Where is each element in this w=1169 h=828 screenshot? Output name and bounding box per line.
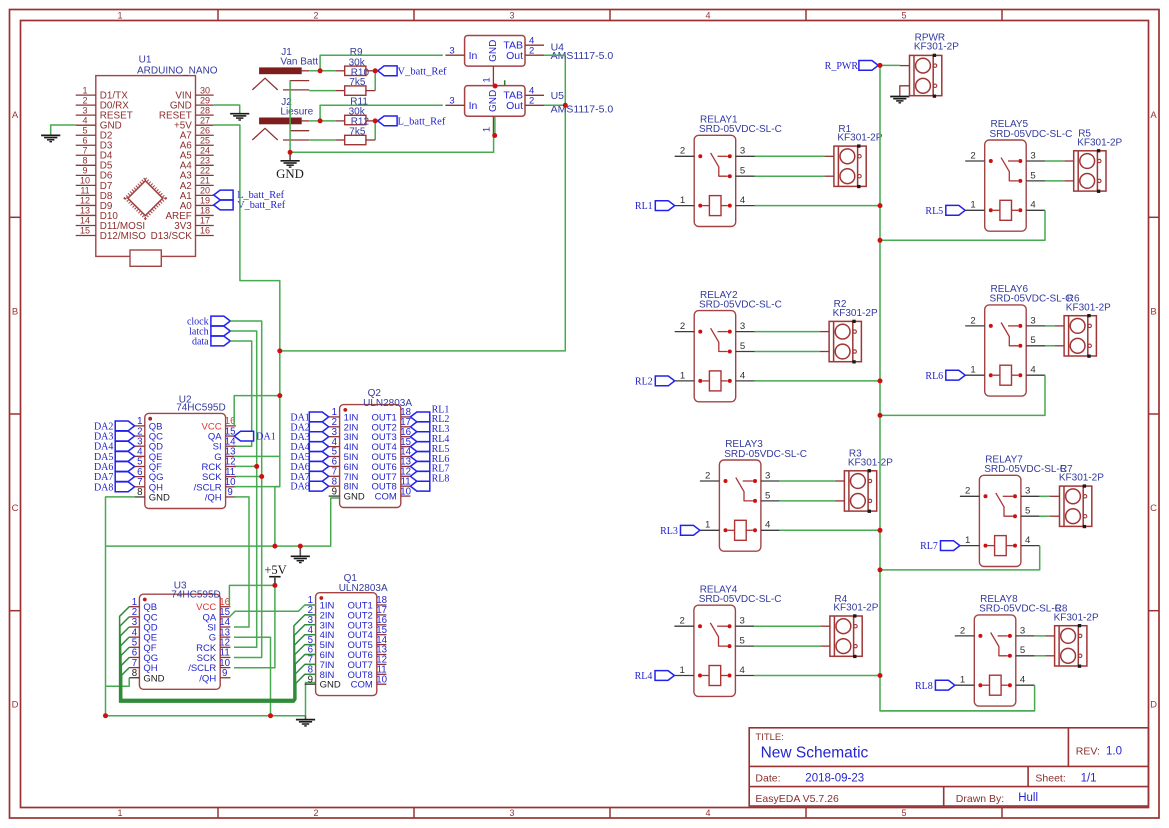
net flag RL8 at relay coil xyxy=(935,680,954,690)
wire RELAY1 pin5 to R1 xyxy=(755,175,825,177)
wire mid GND bus xyxy=(106,498,340,546)
net flag RL5 at Q2 OUT5 xyxy=(410,452,429,462)
svg-text:2: 2 xyxy=(680,616,685,627)
svg-text:2: 2 xyxy=(313,10,318,20)
svg-text:3: 3 xyxy=(765,470,770,481)
wire RELAY2 pin4 to bus xyxy=(755,380,881,382)
wire RELAY3 pin5 to R3 xyxy=(780,500,835,502)
svg-text:KF301-2P: KF301-2P xyxy=(914,42,959,53)
svg-text:B: B xyxy=(12,307,18,318)
net flag RL1 at relay coil xyxy=(655,201,674,211)
connector R1 KF301-2P xyxy=(824,144,866,188)
net flag DA8 at Q2 pin 8 xyxy=(309,481,328,491)
svg-text:1: 1 xyxy=(680,195,685,206)
wire data to U2 SI xyxy=(230,341,251,446)
svg-text:6: 6 xyxy=(82,135,87,145)
svg-text:4: 4 xyxy=(705,808,710,818)
connector R3 KF301-2P xyxy=(835,469,877,513)
connector R7 KF301-2P xyxy=(1050,484,1092,528)
svg-text:9: 9 xyxy=(82,166,87,176)
net flag RL4 at Q2 OUT4 xyxy=(410,442,429,452)
svg-text:SRD-05VDC-SL-C: SRD-05VDC-SL-C xyxy=(699,594,782,605)
wire RELAY4 pin4 to bus xyxy=(754,675,880,677)
svg-text:KF301-2P: KF301-2P xyxy=(833,603,878,614)
wire U3 QA to Q1 1IN xyxy=(229,605,315,617)
net flag DA6 at U2 pin 5 xyxy=(115,462,134,472)
svg-text:2018-09-23: 2018-09-23 xyxy=(805,773,864,785)
svg-text:1: 1 xyxy=(960,675,965,686)
svg-text:3: 3 xyxy=(82,105,87,115)
net flag DA7 at Q2 pin 7 xyxy=(309,471,328,481)
svg-text:2: 2 xyxy=(965,486,970,497)
resistor R12 7k5 xyxy=(345,135,366,144)
svg-text:16: 16 xyxy=(200,226,210,236)
wire V_batt node xyxy=(366,70,375,72)
svg-text:4: 4 xyxy=(82,115,87,125)
svg-text:3: 3 xyxy=(449,96,454,107)
connector R2 KF301-2P xyxy=(820,320,862,364)
svg-text:R9: R9 xyxy=(350,47,363,58)
relay RELAY3 SRD-05VDC-SL-C xyxy=(700,460,780,551)
net flag RL5 at relay coil xyxy=(946,205,965,215)
svg-text:New Schematic: New Schematic xyxy=(761,745,869,762)
svg-text:13: 13 xyxy=(80,206,90,216)
wire +5V branch to regulators xyxy=(280,55,566,351)
relay RELAY1 SRD-05VDC-SL-C xyxy=(675,135,755,226)
svg-text:23: 23 xyxy=(200,156,210,166)
svg-text:GND: GND xyxy=(276,167,304,181)
wire U3 QG to Q1 7IN xyxy=(121,657,315,699)
wire RELAY5 pin3 to R5 xyxy=(1045,160,1064,162)
net flag RL4 at relay coil xyxy=(655,671,674,681)
svg-text:4: 4 xyxy=(1020,675,1026,686)
svg-text:20: 20 xyxy=(200,186,210,196)
svg-text:15: 15 xyxy=(80,226,90,236)
svg-text:5: 5 xyxy=(765,490,770,501)
svg-text:GND: GND xyxy=(143,673,164,684)
svg-text:7k5: 7k5 xyxy=(349,126,366,137)
regulator U4 AMS1117-5.0 xyxy=(445,35,544,86)
svg-text:1: 1 xyxy=(965,535,970,546)
svg-text:5: 5 xyxy=(1020,645,1025,656)
svg-text:14: 14 xyxy=(80,216,90,226)
wire RELAY5 pin5 to R5 xyxy=(1045,180,1064,182)
svg-text:5: 5 xyxy=(1030,335,1035,346)
wire R10 to J1 minus xyxy=(335,90,344,92)
svg-text:/QH: /QH xyxy=(205,492,222,503)
svg-text:5: 5 xyxy=(1025,506,1030,517)
svg-text:2: 2 xyxy=(960,625,965,636)
svg-text:1/1: 1/1 xyxy=(1081,773,1097,785)
wire RELAY2 pin3 to R2 xyxy=(755,331,820,333)
wire U3 QH to Q1 8IN xyxy=(122,668,316,700)
wire RELAY2 pin5 to R2 xyxy=(755,351,820,353)
svg-text:In: In xyxy=(469,50,478,62)
svg-text:27: 27 xyxy=(200,115,210,125)
svg-text:8: 8 xyxy=(132,668,137,679)
title block xyxy=(749,728,1148,806)
resistor R11 30k xyxy=(345,115,366,124)
wire U2 /SCLR tie xyxy=(234,486,280,488)
svg-text:2: 2 xyxy=(680,321,685,332)
svg-text:C: C xyxy=(12,503,19,514)
wire RELAY5 pin4 to bus xyxy=(880,210,1045,240)
wire U3 QD to Q1 4IN xyxy=(120,627,315,701)
svg-text:4: 4 xyxy=(705,10,710,20)
svg-text:R_PWR: R_PWR xyxy=(825,61,859,72)
net flag data xyxy=(211,336,230,346)
svg-text:RL8: RL8 xyxy=(915,681,933,692)
svg-text:5: 5 xyxy=(740,341,745,352)
svg-text:2: 2 xyxy=(970,150,975,161)
wire U2 VCC riser xyxy=(234,396,280,426)
wire U3 GND to bus xyxy=(106,678,130,687)
svg-text:3: 3 xyxy=(740,146,745,157)
net flag DA2 at U2 pin 1 xyxy=(115,421,134,431)
wire U1 pin4 GND xyxy=(51,125,76,134)
svg-text:7: 7 xyxy=(82,145,87,155)
wire U5 Out to riser xyxy=(544,104,565,106)
svg-text:Date:: Date: xyxy=(755,773,780,785)
ground at U1 pin4 xyxy=(50,134,52,135)
svg-text:2: 2 xyxy=(529,45,534,56)
wire L_batt node xyxy=(366,120,375,122)
svg-text:1: 1 xyxy=(481,127,492,132)
relay RELAY8 SRD-05VDC-SL-C xyxy=(955,615,1035,706)
svg-text:3: 3 xyxy=(740,321,745,332)
net flag RL6 at relay coil xyxy=(946,370,965,380)
ground symbol mid bus xyxy=(299,546,301,556)
svg-text:3: 3 xyxy=(509,808,514,818)
svg-text:1.0: 1.0 xyxy=(1106,746,1122,758)
svg-text:2: 2 xyxy=(82,95,87,105)
svg-text:12: 12 xyxy=(80,196,90,206)
svg-text:9: 9 xyxy=(222,668,227,679)
svg-text:5: 5 xyxy=(740,166,745,177)
ic U1 ARDUINO_NANO xyxy=(76,55,218,267)
net flag DA5 at U2 pin 4 xyxy=(115,451,134,461)
svg-text:KF301-2P: KF301-2P xyxy=(837,133,882,144)
svg-text:B: B xyxy=(1150,307,1156,318)
svg-text:5: 5 xyxy=(740,636,745,647)
wire RELAY6 pin3 to R6 xyxy=(1045,325,1055,327)
wire RELAY7 pin3 to R7 xyxy=(1040,495,1050,497)
net flag RL7 at Q2 OUT7 xyxy=(410,471,429,481)
relay RELAY5 SRD-05VDC-SL-C xyxy=(965,140,1045,231)
svg-text:4: 4 xyxy=(1030,200,1036,211)
svg-text:2: 2 xyxy=(705,470,710,481)
connector R5 KF301-2P xyxy=(1064,149,1106,193)
wire RELAY8 pin5 to R8 xyxy=(1035,655,1046,657)
wire clock to U2 SCK and U3 SCK xyxy=(230,321,261,658)
net flag DA8 at U2 pin 7 xyxy=(115,482,134,492)
resistor R9 30k xyxy=(345,66,366,75)
svg-text:Liesure: Liesure xyxy=(280,107,313,118)
ic Q1 ULN2803A xyxy=(305,593,388,696)
svg-text:DA8: DA8 xyxy=(94,482,113,493)
net flag DA5 at Q2 pin 5 xyxy=(309,452,328,462)
svg-text:D12/MISO: D12/MISO xyxy=(100,231,146,242)
junction dots xyxy=(277,348,282,353)
svg-text:ULN2803A: ULN2803A xyxy=(363,398,412,409)
net flag V_batt_Ref at U1 A0 xyxy=(214,200,233,210)
svg-text:Drawn By:: Drawn By: xyxy=(956,793,1004,805)
relay RELAY7 SRD-05VDC-SL-C xyxy=(960,475,1040,566)
svg-text:2: 2 xyxy=(313,808,318,818)
svg-text:10: 10 xyxy=(376,674,387,685)
regulator U5 body xyxy=(445,86,544,136)
net flag latch xyxy=(211,326,230,336)
wire U2 /QH to U3 SI xyxy=(234,497,249,627)
svg-text:EasyEDA V5.7.26: EasyEDA V5.7.26 xyxy=(755,793,839,805)
wire J1 to R9 xyxy=(309,70,336,72)
svg-text:A: A xyxy=(1150,110,1157,121)
junction latch at U2 RCK xyxy=(234,465,257,467)
net flag V_batt_Ref at R9/R10 xyxy=(378,66,397,76)
wire RELAY1 pin3 to R1 xyxy=(755,155,825,157)
ic U3 74HC595D xyxy=(129,594,230,689)
svg-text:8: 8 xyxy=(82,156,87,166)
wire RELAY4 pin3 to R4 xyxy=(754,625,820,627)
svg-text:9: 9 xyxy=(308,674,313,685)
svg-text:SRD-05VDC-SL-C: SRD-05VDC-SL-C xyxy=(699,124,782,135)
svg-text:REV:: REV: xyxy=(1076,746,1100,758)
svg-text:RL4: RL4 xyxy=(635,671,653,682)
relay RELAY6 SRD-05VDC-SL-C xyxy=(965,305,1045,396)
svg-text:9: 9 xyxy=(227,487,232,498)
wire J2 riser to U5 In xyxy=(320,105,443,121)
svg-text:ULN2803A: ULN2803A xyxy=(339,583,388,594)
svg-text:ARDUINO_NANO: ARDUINO_NANO xyxy=(137,65,218,76)
wire RELAY8 pin3 to R8 xyxy=(1035,635,1046,637)
svg-text:KF301-2P: KF301-2P xyxy=(833,308,878,319)
wire U3 QE to Q1 5IN xyxy=(121,637,316,701)
ground symbol bottom bus xyxy=(305,716,307,720)
svg-text:COM: COM xyxy=(375,492,397,503)
svg-text:25: 25 xyxy=(200,135,210,145)
wire U4 Out to riser xyxy=(544,54,565,56)
svg-text:V_batt_Ref: V_batt_Ref xyxy=(398,66,447,77)
wire relay power bus xyxy=(879,65,881,675)
svg-text:SRD-05VDC-SL-C: SRD-05VDC-SL-C xyxy=(990,129,1073,140)
svg-text:29: 29 xyxy=(200,95,210,105)
junction clock at U2 SCK xyxy=(234,476,262,478)
wire latch to U2 RCK and U3 RCK xyxy=(230,331,256,647)
svg-text:4: 4 xyxy=(740,370,746,381)
svg-text:3: 3 xyxy=(1025,486,1030,497)
net flag clock xyxy=(211,316,230,326)
svg-text:Hull: Hull xyxy=(1018,792,1038,804)
net flag L_batt_Ref at U1 A1 xyxy=(214,190,233,200)
wire +5V net from U1 pin27 down to U2 region xyxy=(214,125,280,456)
net flag DA3 at Q2 pin 3 xyxy=(309,432,328,442)
ground symbol GND flag xyxy=(289,152,291,160)
wire Q1 GND riser xyxy=(306,683,316,716)
svg-text:COM: COM xyxy=(351,680,373,691)
wire +5V to U3 VCC xyxy=(229,585,275,606)
net flag DA1 at U2 QA xyxy=(234,431,253,441)
svg-text:22: 22 xyxy=(200,166,210,176)
wire U4 GND to U5 GND xyxy=(494,86,496,136)
svg-text:KF301-2P: KF301-2P xyxy=(1066,302,1111,313)
wire J2 to R11 xyxy=(309,120,336,122)
svg-text:3: 3 xyxy=(449,45,454,56)
svg-text:GND: GND xyxy=(344,492,365,503)
svg-text:3: 3 xyxy=(1030,150,1035,161)
svg-text:2: 2 xyxy=(970,315,975,326)
svg-text:KF301-2P: KF301-2P xyxy=(1077,137,1122,148)
wire R12 to J2 minus xyxy=(335,139,344,141)
svg-text:U1: U1 xyxy=(139,55,152,66)
svg-text:1: 1 xyxy=(680,370,685,381)
wire RELAY7 pin5 to R7 xyxy=(1040,515,1050,517)
svg-text:V_batt_Ref: V_batt_Ref xyxy=(237,200,286,211)
svg-text:4: 4 xyxy=(765,520,771,531)
svg-text:17: 17 xyxy=(200,216,210,226)
wire J1/J2 minus vertical to GND xyxy=(289,81,291,153)
svg-text:4: 4 xyxy=(740,195,746,206)
svg-text:RL7: RL7 xyxy=(920,541,938,552)
connector J2 Liesure xyxy=(252,97,313,140)
net flag RL3 at Q2 OUT3 xyxy=(410,432,429,442)
net flag RL2 at relay coil xyxy=(655,376,674,386)
net flag DA1 at Q2 pin 1 xyxy=(309,412,328,422)
wire U1 pin29 GND xyxy=(214,105,240,113)
wire RELAY6 pin5 to R6 xyxy=(1045,345,1055,347)
svg-text:1: 1 xyxy=(705,520,710,531)
wire U3 G to bottom bus xyxy=(234,637,271,716)
net flag RL8 at Q2 OUT8 xyxy=(410,481,429,491)
svg-text:KF301-2P: KF301-2P xyxy=(1054,612,1099,623)
svg-text:21: 21 xyxy=(200,176,210,186)
wire RELAY3 pin4 to bus xyxy=(780,529,880,531)
wire bottom GND bus xyxy=(106,715,306,717)
svg-text:4: 4 xyxy=(740,665,746,676)
net flag RL2 at Q2 OUT2 xyxy=(410,422,429,432)
svg-text:Van Batt: Van Batt xyxy=(280,56,318,67)
svg-text:8: 8 xyxy=(137,487,142,498)
svg-text:18: 18 xyxy=(200,206,210,216)
net flag R_PWR xyxy=(859,61,878,71)
svg-text:D13/SCK: D13/SCK xyxy=(151,231,193,242)
svg-text:RL2: RL2 xyxy=(635,377,653,388)
wire U3 QF to Q1 6IN xyxy=(121,647,316,700)
svg-text:DA8: DA8 xyxy=(290,482,309,493)
svg-text:SRD-05VDC-SL-C: SRD-05VDC-SL-C xyxy=(990,294,1073,305)
wire RELAY7 pin4 to bus xyxy=(880,546,1040,570)
net flag DA6 at Q2 pin 6 xyxy=(309,462,328,472)
svg-text:SRD-05VDC-SL-C: SRD-05VDC-SL-C xyxy=(699,299,782,310)
svg-text:DA1: DA1 xyxy=(256,432,275,443)
svg-text:28: 28 xyxy=(200,105,210,115)
svg-text:74HC595D: 74HC595D xyxy=(176,403,225,414)
svg-text:2: 2 xyxy=(529,96,534,107)
svg-text:RL6: RL6 xyxy=(925,371,943,382)
ic Q2 ULN2803A xyxy=(329,405,412,508)
net flag DA7 at U2 pin 6 xyxy=(115,472,134,482)
svg-text:19: 19 xyxy=(200,196,210,206)
svg-text:3: 3 xyxy=(1030,315,1035,326)
net flag DA3 at U2 pin 2 xyxy=(115,431,134,441)
svg-text:L_batt_Ref: L_batt_Ref xyxy=(398,117,446,128)
resistor R10 7k5 xyxy=(345,86,366,95)
svg-text:9: 9 xyxy=(332,486,337,497)
relay RELAY4 SRD-05VDC-SL-C xyxy=(674,605,754,696)
connector R6 KF301-2P xyxy=(1055,314,1097,358)
svg-text:data: data xyxy=(192,337,209,348)
wire RELAY6 pin4 to bus xyxy=(880,375,1045,415)
svg-text:TITLE:: TITLE: xyxy=(755,732,784,743)
svg-text:KF301-2P: KF301-2P xyxy=(848,457,893,468)
svg-text:/QH: /QH xyxy=(199,673,216,684)
svg-text:GND: GND xyxy=(488,90,499,112)
svg-text:10: 10 xyxy=(400,486,411,497)
wire R_PWR to RPWR xyxy=(878,64,900,66)
svg-text:2: 2 xyxy=(680,146,685,157)
svg-text:5: 5 xyxy=(901,10,906,20)
wire +5V to U3 /SCLR xyxy=(234,585,275,667)
svg-text:SRD-05VDC-SL-C: SRD-05VDC-SL-C xyxy=(724,449,807,460)
wire RELAY8 pin4 to bus xyxy=(880,685,1035,711)
svg-text:1: 1 xyxy=(970,200,975,211)
wire RELAY4 pin5 to R4 xyxy=(754,645,820,647)
svg-text:D: D xyxy=(1150,700,1157,711)
svg-text:SRD-05VDC-SL-C: SRD-05VDC-SL-C xyxy=(979,604,1062,615)
svg-text:3: 3 xyxy=(1020,625,1025,636)
svg-text:GND: GND xyxy=(320,680,341,691)
net flag RL6 at Q2 OUT6 xyxy=(410,462,429,472)
svg-text:1: 1 xyxy=(481,77,492,82)
svg-text:SRD-05VDC-SL-C: SRD-05VDC-SL-C xyxy=(984,464,1067,475)
connector J1 Van Batt xyxy=(252,47,318,90)
ic U2 74HC595D xyxy=(135,413,236,508)
svg-text:11: 11 xyxy=(80,186,89,196)
connector R4 KF301-2P xyxy=(820,614,862,658)
svg-text:3: 3 xyxy=(740,616,745,627)
wire U3 QB to Q1 2IN xyxy=(120,607,316,702)
net flag RL7 at relay coil xyxy=(941,541,960,551)
svg-text:74HC595D: 74HC595D xyxy=(171,589,220,600)
svg-text:Out: Out xyxy=(506,100,523,112)
wire GND bus top xyxy=(290,136,494,153)
svg-text:In: In xyxy=(469,100,478,112)
svg-text:5: 5 xyxy=(901,808,906,818)
svg-text:5: 5 xyxy=(1030,170,1035,181)
ground symbol RPWR xyxy=(890,97,909,103)
svg-text:5: 5 xyxy=(82,125,87,135)
svg-text:U5: U5 xyxy=(551,90,565,102)
ground at U1 pin29 xyxy=(230,114,249,120)
net flag RL1 at Q2 OUT1 xyxy=(410,412,429,422)
wire RELAY1 pin4 to bus xyxy=(755,205,881,207)
svg-text:1: 1 xyxy=(82,85,87,95)
svg-text:Sheet:: Sheet: xyxy=(1035,773,1065,785)
wire U3 QC to Q1 3IN xyxy=(120,617,316,702)
net flag L_batt_Ref at R11/R12 xyxy=(378,116,397,126)
svg-text:1: 1 xyxy=(970,365,975,376)
svg-text:RL8: RL8 xyxy=(432,474,450,485)
svg-text:3: 3 xyxy=(509,10,514,20)
svg-text:C: C xyxy=(1150,503,1157,514)
svg-text:GND: GND xyxy=(488,40,499,62)
connector R8 KF301-2P xyxy=(1045,624,1087,668)
svg-text:4: 4 xyxy=(1025,535,1031,546)
svg-text:+5V: +5V xyxy=(264,563,286,577)
svg-text:RL3: RL3 xyxy=(660,526,678,537)
svg-text:A: A xyxy=(12,110,19,121)
relay RELAY2 SRD-05VDC-SL-C xyxy=(675,311,755,402)
svg-text:1: 1 xyxy=(117,808,122,818)
